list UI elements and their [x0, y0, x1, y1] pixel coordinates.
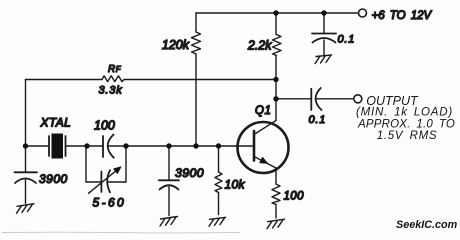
label 100 emitter [284, 191, 305, 203]
resistor 10k top lead [218, 146, 220, 172]
junction dot Rf to collector branch [273, 77, 278, 82]
svg-text:XTAL: XTAL [40, 116, 72, 130]
junction dot top rail at 2.2k [273, 10, 278, 15]
wire output line from collector node [276, 98, 311, 100]
watermark SeekIC.com [396, 219, 458, 231]
wire top supply rail [196, 12, 358, 14]
crystal XTAL left plate [48, 136, 50, 156]
svg-text:10k: 10k [225, 178, 246, 192]
junction dot cap branch right node [123, 143, 128, 148]
capacitor variable 5-60 straight plate [100, 172, 102, 193]
svg-text:0.1: 0.1 [309, 114, 327, 126]
wire main signal line to transistor base [126, 145, 254, 147]
capacitor 100 series left plate [102, 136, 104, 157]
label XTAL [40, 116, 72, 130]
ground below left 3900 [17, 204, 35, 214]
wire 10k bottom lead [218, 193, 220, 215]
ground below emitter resistor [267, 219, 285, 229]
wire XTAL to node [66, 145, 88, 147]
svg-text:APPROX. 1.0 TO: APPROX. 1.0 TO [357, 119, 455, 131]
wire variable-cap branch left drop [85, 146, 87, 182]
junction dot 3900 middle node [166, 143, 171, 148]
wire 2.2k top lead [275, 13, 277, 35]
terminal output open circle [354, 95, 362, 103]
transistor Q1 base bar [253, 131, 256, 161]
capacitor 3900 left (curved plate) [15, 179, 36, 184]
resistor 2.2k [273, 35, 282, 56]
label 3.3k [99, 85, 123, 97]
capacitor 100 series curved plate [108, 135, 114, 158]
svg-text:3900: 3900 [175, 166, 204, 180]
label +6 TO 12V [372, 10, 433, 22]
label OUTPUT block [356, 94, 455, 142]
junction dot xtal right node [84, 143, 89, 148]
capacitor 3900 middle curved plate [160, 185, 179, 189]
junction dot output tap [273, 96, 278, 101]
label 0.1 output [309, 114, 327, 126]
svg-text:(MIN. 1k LOAD): (MIN. 1k LOAD) [356, 107, 453, 119]
wire 120k bottom lead down to base node [195, 54, 197, 146]
wire 120k top lead [195, 13, 197, 32]
crystal XTAL left lead [26, 145, 50, 147]
label 0.1 supply [338, 34, 356, 46]
junction dot 120k bottom node [193, 143, 198, 148]
resistor 10k [215, 172, 222, 193]
svg-text:1.5V RMS: 1.5V RMS [377, 130, 438, 142]
capacitor 0.1 output straight plate [310, 89, 312, 110]
label 100 series cap [94, 119, 115, 133]
wire variable-cap branch left horizontal [86, 181, 101, 183]
svg-text:100: 100 [284, 191, 305, 203]
resistor 100 emitter [272, 184, 280, 205]
wire variable-cap branch right rise [125, 146, 127, 182]
svg-text:+6 TO 12V: +6 TO 12V [372, 10, 433, 22]
svg-text:5-60: 5-60 [93, 196, 127, 210]
svg-text:RF: RF [108, 64, 122, 75]
capacitor 0.1 supply curved plate [313, 38, 336, 43]
ground below 10k [209, 217, 226, 226]
wire Rf horizontal left segment [26, 79, 103, 81]
label 10k [225, 178, 246, 192]
junction dot top rail at 0.1 [321, 10, 326, 15]
svg-text:100: 100 [94, 119, 115, 133]
capacitor variable 5-60 curved plate [107, 170, 110, 192]
ground below supply 0.1 [315, 55, 332, 64]
wire 100 cap to node [109, 145, 126, 147]
transistor Q1 collector diagonal [254, 121, 276, 135]
wire feedback Rf line left vertical [25, 80, 27, 173]
svg-text:120k: 120k [162, 38, 190, 52]
wire Rf horizontal right segment to collector node [124, 79, 276, 81]
label 2.2k [247, 38, 272, 52]
svg-text:SeekIC.com: SeekIC.com [396, 219, 458, 231]
label 3900 left [39, 172, 68, 186]
capacitor 3900 middle top lead [168, 146, 170, 180]
label 3900 middle [175, 166, 204, 180]
wire 0.1 supply bottom lead [323, 40, 325, 55]
wire emitter down lead [275, 168, 277, 184]
label 5-60 [93, 196, 127, 210]
svg-text:Q1: Q1 [255, 105, 272, 117]
svg-text:3900: 3900 [39, 172, 68, 186]
svg-text:2.2k: 2.2k [247, 38, 272, 52]
svg-text:0.1: 0.1 [338, 34, 356, 46]
wire variable-cap branch right horizontal [108, 181, 126, 183]
crystal XTAL body [52, 134, 64, 159]
label 120k [162, 38, 190, 52]
faint scan artifact line bottom [2, 231, 240, 234]
terminal +V open circle [359, 9, 367, 17]
wire collector branch (2.2k bottom to collector) [275, 56, 277, 121]
capacitor 3900 left (top plate) [15, 171, 38, 173]
transistor Q1 circle [238, 122, 289, 173]
junction dot left node [23, 143, 28, 148]
transistor Q1 emitter diagonal with arrow [254, 157, 276, 169]
wire 3900 left bottom lead [25, 180, 27, 204]
svg-text:3.3k: 3.3k [99, 85, 123, 97]
ground below middle 3900 [160, 217, 178, 227]
resistor 120k [192, 32, 201, 54]
capacitor 0.1 supply top lead [323, 13, 325, 34]
capacitor 3900 middle top plate [159, 179, 179, 181]
label RF [108, 64, 122, 75]
wire output cap to terminal [317, 98, 354, 100]
wire 100 bottom lead [275, 205, 277, 219]
arrow of variable capacitor [89, 167, 122, 194]
junction dot 10k top node [216, 143, 221, 148]
wire node to 100 cap [87, 145, 103, 147]
crystal XTAL right plate [65, 136, 67, 156]
label Q1 [255, 105, 272, 117]
capacitor 0.1 output curved plate [316, 88, 322, 110]
capacitor 0.1 supply straight plate [312, 33, 336, 35]
wire 3900 middle bottom lead [168, 187, 170, 216]
resistor Rf 3.3k [102, 76, 124, 82]
